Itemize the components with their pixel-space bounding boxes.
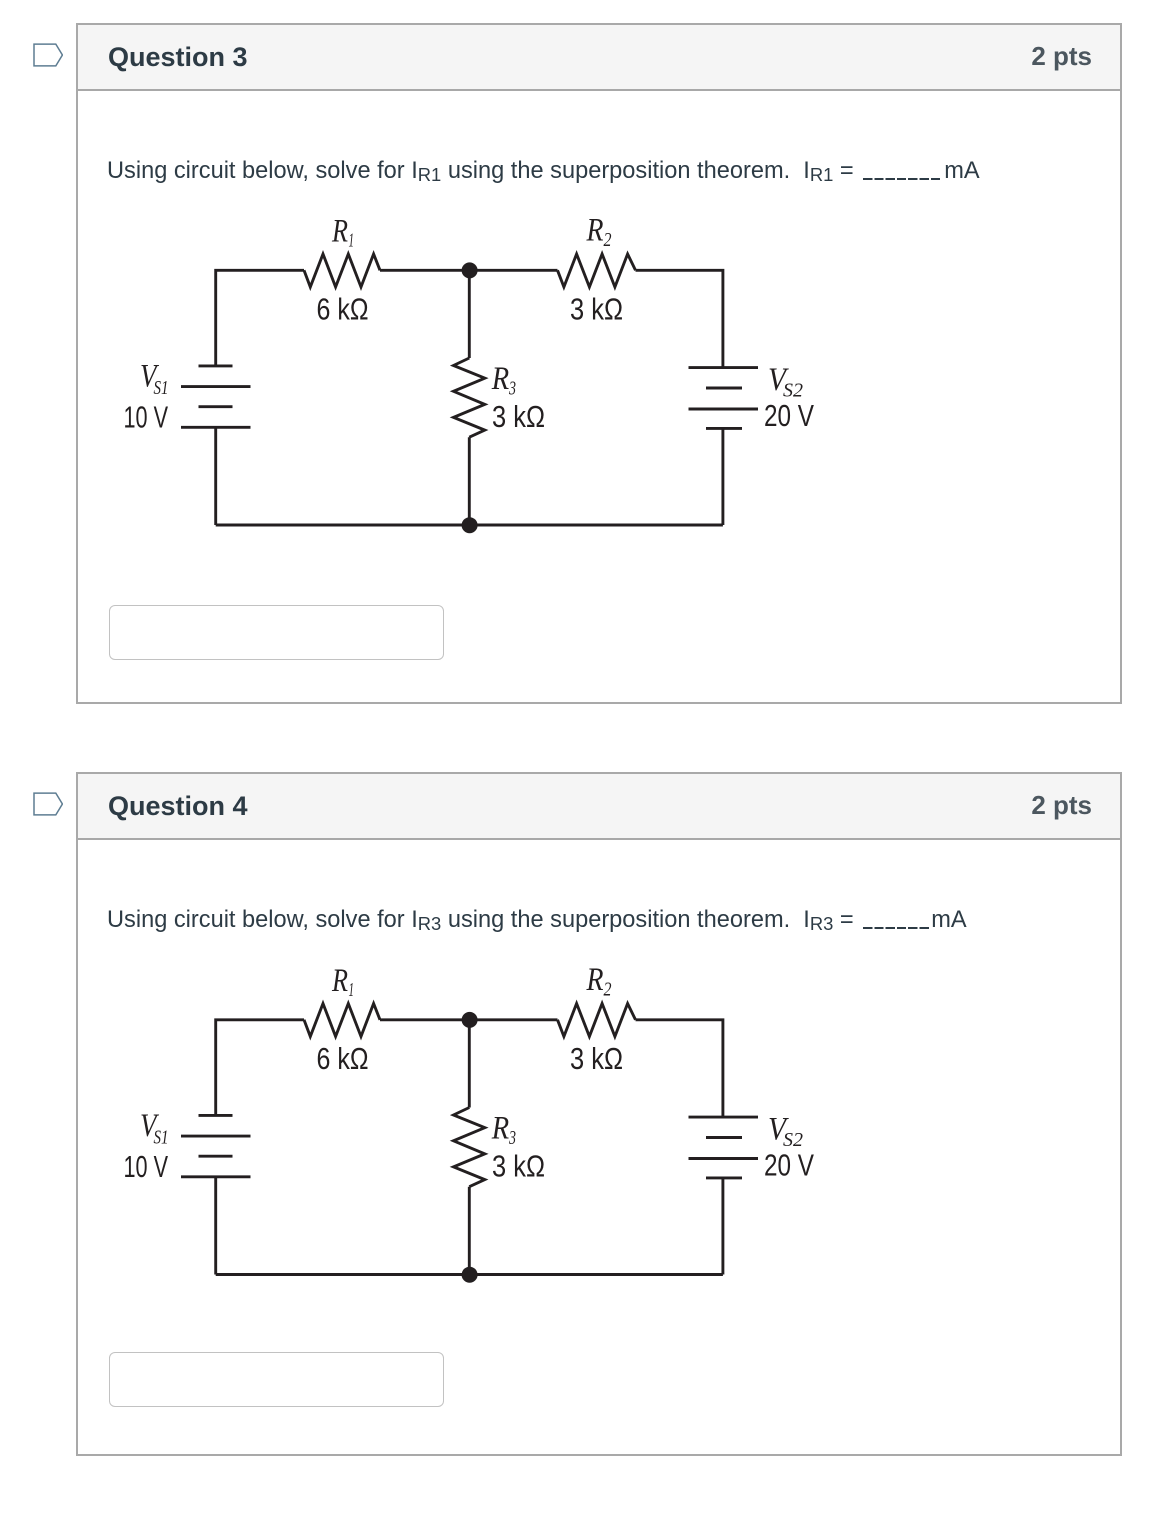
resistor R2 (zigzag) — [558, 254, 636, 287]
battery VS2 plate 4 (short) — [706, 1176, 742, 1179]
node A (top junction dot) — [462, 262, 478, 278]
svg-text:3 kΩ: 3 kΩ — [570, 292, 623, 327]
resistor R3 (vertical zigzag) — [454, 358, 485, 437]
resistor R1 (zigzag) — [304, 1004, 380, 1037]
wire: R2 to right rail down to VS2 — [636, 270, 723, 367]
node A (top junction dot) — [462, 1012, 478, 1028]
svg-text:20 V: 20 V — [764, 1148, 814, 1183]
wire: R3 down to node B — [468, 1187, 471, 1275]
wire: bottom rail — [216, 524, 723, 527]
wire: VS2 to bottom-right corner — [721, 428, 724, 525]
battery VS2 plate 2 (short) — [706, 1136, 742, 1139]
wire: left rail top + top-left segment — [216, 270, 304, 366]
battery VS1 plate 1 (short) — [199, 1114, 233, 1117]
svg-text:3 kΩ: 3 kΩ — [492, 1149, 545, 1184]
svg-text:3: 3 — [508, 1127, 516, 1149]
battery VS2 plate 1 (long) — [689, 1116, 759, 1119]
svg-text:S1: S1 — [154, 1127, 169, 1149]
battery VS1 plate 2 (long) — [181, 1135, 251, 1138]
svg-text:2: 2 — [604, 979, 612, 1001]
wire: R1 to node A — [380, 269, 470, 272]
wire: left rail top + top-left segment — [216, 1020, 304, 1116]
svg-text:R: R — [491, 1111, 509, 1147]
node B (bottom junction dot) — [462, 517, 478, 533]
battery VS1 plate 3 (short) — [199, 405, 233, 408]
wire: node A to R2 — [470, 1018, 558, 1021]
battery VS1 plate 1 (short) — [199, 364, 233, 367]
battery VS2 plate 4 (short) — [706, 427, 742, 430]
wire: VS1 to bottom-left corner — [214, 427, 217, 525]
svg-text:R: R — [586, 962, 604, 998]
svg-text:3: 3 — [508, 378, 516, 400]
battery VS1 plate 4 (long) — [181, 426, 251, 429]
wire: VS2 to bottom-right corner — [721, 1178, 724, 1275]
wire: R3 down to node B — [468, 437, 471, 525]
svg-text:3 kΩ: 3 kΩ — [492, 399, 545, 434]
resistor R1 (zigzag) — [304, 254, 380, 287]
svg-text:R: R — [331, 214, 348, 250]
battery VS2 plate 3 (long) — [689, 1157, 759, 1160]
svg-text:6 kΩ: 6 kΩ — [317, 292, 369, 327]
wire: R1 to node A — [380, 1018, 470, 1021]
svg-text:1: 1 — [349, 979, 355, 1001]
wire: node A to R2 — [470, 269, 558, 272]
wire: node A down to R3 — [468, 270, 471, 358]
battery VS2 plate 3 (long) — [689, 408, 759, 411]
svg-text:10 V: 10 V — [124, 400, 169, 435]
svg-text:S1: S1 — [154, 377, 169, 399]
battery VS1 plate 2 (long) — [181, 385, 251, 388]
flag icon Q4 — [33, 792, 63, 816]
svg-text:10 V: 10 V — [124, 1149, 169, 1184]
wire: R2 to right rail down to VS2 — [636, 1020, 723, 1117]
wire: node A down to R3 — [468, 1020, 471, 1108]
flag icon Q3 — [33, 43, 63, 67]
svg-text:20 V: 20 V — [764, 398, 814, 433]
battery VS1 plate 4 (long) — [181, 1175, 251, 1178]
svg-text:6 kΩ: 6 kΩ — [317, 1041, 369, 1076]
battery VS2 plate 1 (long) — [689, 366, 759, 369]
wire: bottom rail — [216, 1273, 723, 1276]
svg-text:1: 1 — [349, 230, 355, 252]
battery VS1 plate 3 (short) — [199, 1155, 233, 1158]
resistor R2 (zigzag) — [558, 1004, 636, 1037]
svg-text:R: R — [491, 361, 509, 397]
wire: VS1 to bottom-left corner — [214, 1177, 217, 1275]
svg-text:3 kΩ: 3 kΩ — [570, 1041, 623, 1076]
node B (bottom junction dot) — [462, 1267, 478, 1283]
svg-text:R: R — [331, 963, 348, 999]
svg-text:R: R — [586, 213, 604, 249]
svg-text:2: 2 — [604, 229, 612, 251]
resistor R3 (vertical zigzag) — [454, 1108, 485, 1187]
battery VS2 plate 2 (short) — [706, 387, 742, 390]
